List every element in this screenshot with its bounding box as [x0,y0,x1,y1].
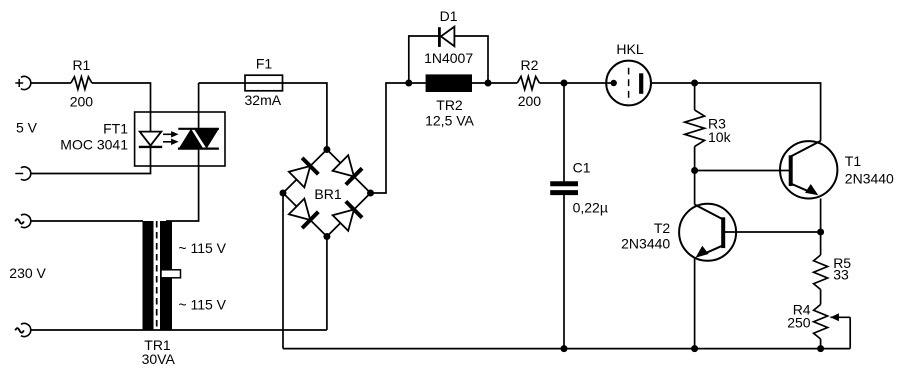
wire T1 emitter down [820,199,822,233]
capacitor C1 [550,184,578,193]
resistor R3 [685,110,705,147]
wire TR2 to R2 [488,82,517,84]
node C1 bottom [561,345,568,352]
node R4 bottom bus [817,345,824,352]
wire triac top terminal [198,83,200,129]
wire T2 base [725,231,821,233]
node R3 top [691,80,698,87]
wire bridge right up to rail [371,83,409,193]
light arrows FT1 [163,131,179,145]
wire C1 bottom [563,195,565,349]
svg-text:D1: D1 [440,8,458,24]
wire bridge left to ground bus [282,193,284,349]
terminal J3 (~, 230 V input) [15,214,31,227]
bridge diode bottom-right [333,201,362,230]
R4 wiper arrow [830,313,850,321]
wire bridge bottom down [326,237,328,331]
transformer TR1 secondary winding [160,221,172,330]
wire T1 base node down to T2 collector [694,171,696,205]
wire node to R5 [820,232,822,255]
fuse F1 [245,75,283,91]
svg-text:1N4007: 1N4007 [424,50,473,66]
svg-text:200: 200 [70,93,94,109]
svg-text:5 V: 5 V [16,120,38,136]
wire ~ terminal along bottom to bridge [31,329,327,331]
wire triac bottom to TR1 secondary [166,149,199,221]
svg-text:33: 33 [833,267,849,283]
svg-text:~ 115 V: ~ 115 V [178,240,226,256]
svg-text:T2: T2 [654,220,671,236]
svg-text:32mA: 32mA [245,92,282,108]
wire triac to F1 to bridge top [199,83,327,150]
svg-text:FT1: FT1 [103,120,128,136]
node bridge bottom [323,233,330,240]
node TR2 right [485,80,492,87]
wire R4 bottom to bus [820,339,822,349]
svg-text:12,5 VA: 12,5 VA [425,113,474,129]
svg-text:F1: F1 [256,56,273,72]
wire D1 right leg [455,36,488,83]
triac inside FT1 [178,129,219,149]
svg-text:T1: T1 [845,153,862,169]
LED inside FT1 [139,132,162,147]
terminal J2 (-, 5 V input) [15,167,30,180]
svg-text:2N3440: 2N3440 [845,170,894,186]
node bridge top [323,146,330,153]
svg-text:2N3440: 2N3440 [621,236,670,252]
wire C1 top [563,83,565,181]
wire lamp to T1 collector corner [651,83,821,141]
wire node to T1 base [695,170,789,172]
svg-text:0,22µ: 0,22µ [573,200,608,216]
wire + terminal to R1 [31,82,71,84]
wire ~ terminal to TR1 primary [31,220,143,222]
node bridge left [280,190,287,197]
TR1 center tap [161,270,181,278]
bridge BR1 outline [283,150,371,237]
wire R2 to lamp [539,82,606,84]
wire D1 left leg [409,36,440,83]
diode D1 [439,27,454,47]
svg-text:TR2: TR2 [436,97,463,113]
svg-text:R1: R1 [72,57,90,73]
lamp HKL [606,61,651,106]
transistor T2 [679,204,736,261]
wire rail to R3 [694,83,696,110]
transformer TR1 primary winding [143,221,154,330]
resistor R2 [517,77,539,90]
svg-text:200: 200 [518,93,542,109]
transistor T1 [780,141,837,199]
node bridge right [367,190,374,197]
ground bus wire [283,348,850,350]
svg-text:C1: C1 [573,159,591,175]
node T1 emitter / T2 base [817,229,824,236]
terminal J1 (+, 5 V input) [15,76,30,89]
wire R3 to node [694,147,696,171]
node TR2 left [405,80,412,87]
wire rail through TR2 [409,82,488,84]
optocoupler FT1 box [135,112,225,166]
potentiometer R4 [814,305,828,340]
bridge diode left-top [289,158,318,187]
wire R1 to optocoupler LED [92,83,151,132]
svg-text:230 V: 230 V [9,265,46,281]
wire R4 wiper loop [849,317,851,348]
resistor R1 [71,77,92,89]
svg-text:HKL: HKL [616,41,643,57]
wire R5 to R4 [820,290,822,305]
svg-text:~ 115 V: ~ 115 V [178,296,226,312]
node C1 top [561,80,568,87]
transformer TR1 core [156,221,158,330]
node T2 emitter bus [691,345,698,352]
svg-text:R2: R2 [521,57,539,73]
node T1 base [691,167,698,174]
svg-text:250: 250 [787,315,811,331]
inductor TR2 [426,74,472,92]
bridge diode top-right [333,155,362,184]
svg-text:BR1: BR1 [314,186,341,202]
svg-text:30VA: 30VA [142,351,176,367]
resistor R5 [814,255,828,290]
svg-text:MOC 3041: MOC 3041 [60,136,128,152]
terminal J4 (~, 230 V input) [15,323,31,336]
wire T2 emitter down [694,258,696,349]
bridge diode left-bottom [289,199,318,228]
svg-text:10k: 10k [708,129,732,145]
wire LED cathode to - terminal [31,147,151,174]
